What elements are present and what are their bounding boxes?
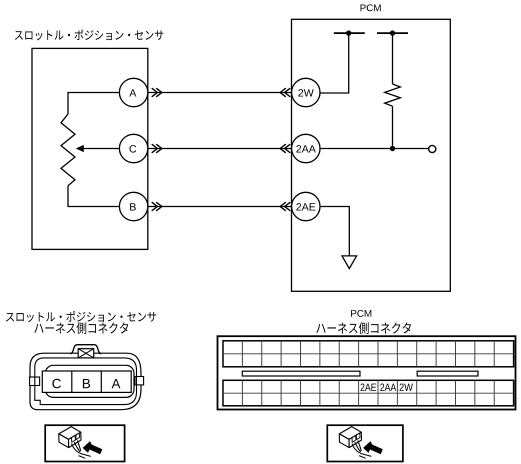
wire C to 2AA xyxy=(148,148,292,150)
cell divider C|B xyxy=(71,371,73,392)
junction dot rail right xyxy=(390,30,395,35)
sensor box xyxy=(32,48,148,249)
wiper arrow from C xyxy=(76,145,120,152)
PCM connector left slot xyxy=(242,371,360,376)
pin label 2AE xyxy=(361,384,377,391)
sensor connector top tab xyxy=(70,345,101,354)
label: sensor connector title line1 xyxy=(6,311,156,322)
chevrons into PCM 2AA xyxy=(280,144,290,153)
connector removal icon right xyxy=(339,427,383,459)
resistor: potentiometer element xyxy=(61,114,75,186)
icon box left xyxy=(45,425,124,461)
pin label C xyxy=(52,379,61,389)
terminal B xyxy=(119,192,147,220)
PCM harness connector outer xyxy=(218,336,516,409)
PCM connector right slot xyxy=(417,371,478,376)
terminal C xyxy=(119,134,147,162)
PCM connector bottom grid xyxy=(223,380,514,406)
wire: potentiometer bottom to B terminal xyxy=(68,186,119,207)
pin label 2W xyxy=(400,384,413,391)
power rail B+ right xyxy=(377,32,408,34)
wire: A terminal to potentiometer top xyxy=(68,93,119,115)
label: sensor connector title line2 xyxy=(34,322,128,334)
sensor connector outer outline xyxy=(30,353,141,410)
sensor connector seal groove xyxy=(45,365,134,397)
chevrons out of sensor C xyxy=(152,144,162,153)
label: throttle position sensor title xyxy=(15,29,164,40)
wire resistor to node xyxy=(392,106,394,148)
wire rail to resistor xyxy=(392,33,394,84)
cell divider B|A xyxy=(100,371,102,392)
junction dot rail left xyxy=(346,30,351,35)
chevrons out of sensor B xyxy=(152,202,162,211)
label: PCM connector title line2 xyxy=(316,322,411,334)
wire 2AE to ground xyxy=(320,207,349,256)
chevrons out of sensor A xyxy=(152,88,162,97)
terminal 2W xyxy=(292,78,320,106)
sensor connector inner wall xyxy=(35,358,137,405)
power rail B+ left xyxy=(334,32,365,34)
pin label 2AA xyxy=(380,384,396,391)
label: PCM connector title line1 xyxy=(351,310,371,317)
chevrons into PCM 2W xyxy=(280,88,290,97)
icon box right xyxy=(327,425,403,461)
wire A to 2W xyxy=(148,92,292,94)
sensor connector lock X-box xyxy=(78,349,94,358)
junction dot node 2AA xyxy=(390,146,395,151)
connector removal icon left xyxy=(59,427,103,459)
PCM box xyxy=(292,19,451,291)
sensor connector right tab xyxy=(135,377,144,385)
sensor connector cell row xyxy=(42,371,131,392)
terminal A xyxy=(119,78,147,106)
terminal 2AA xyxy=(292,134,320,162)
wire B to 2AE xyxy=(148,206,292,208)
terminal 2AE xyxy=(292,192,320,220)
wire rail to 2W xyxy=(320,33,349,93)
sensor connector left tab xyxy=(30,377,40,386)
open terminal circle xyxy=(429,145,436,152)
resistor R in PCM xyxy=(385,84,401,106)
label: PCM title xyxy=(361,4,381,11)
wire 2AA to open terminal xyxy=(320,148,429,150)
pin label B xyxy=(83,379,90,388)
ground symbol xyxy=(342,256,357,269)
PCM connector top grid xyxy=(223,341,514,367)
pin label A xyxy=(112,379,121,388)
chevrons into PCM 2AE xyxy=(280,202,290,211)
